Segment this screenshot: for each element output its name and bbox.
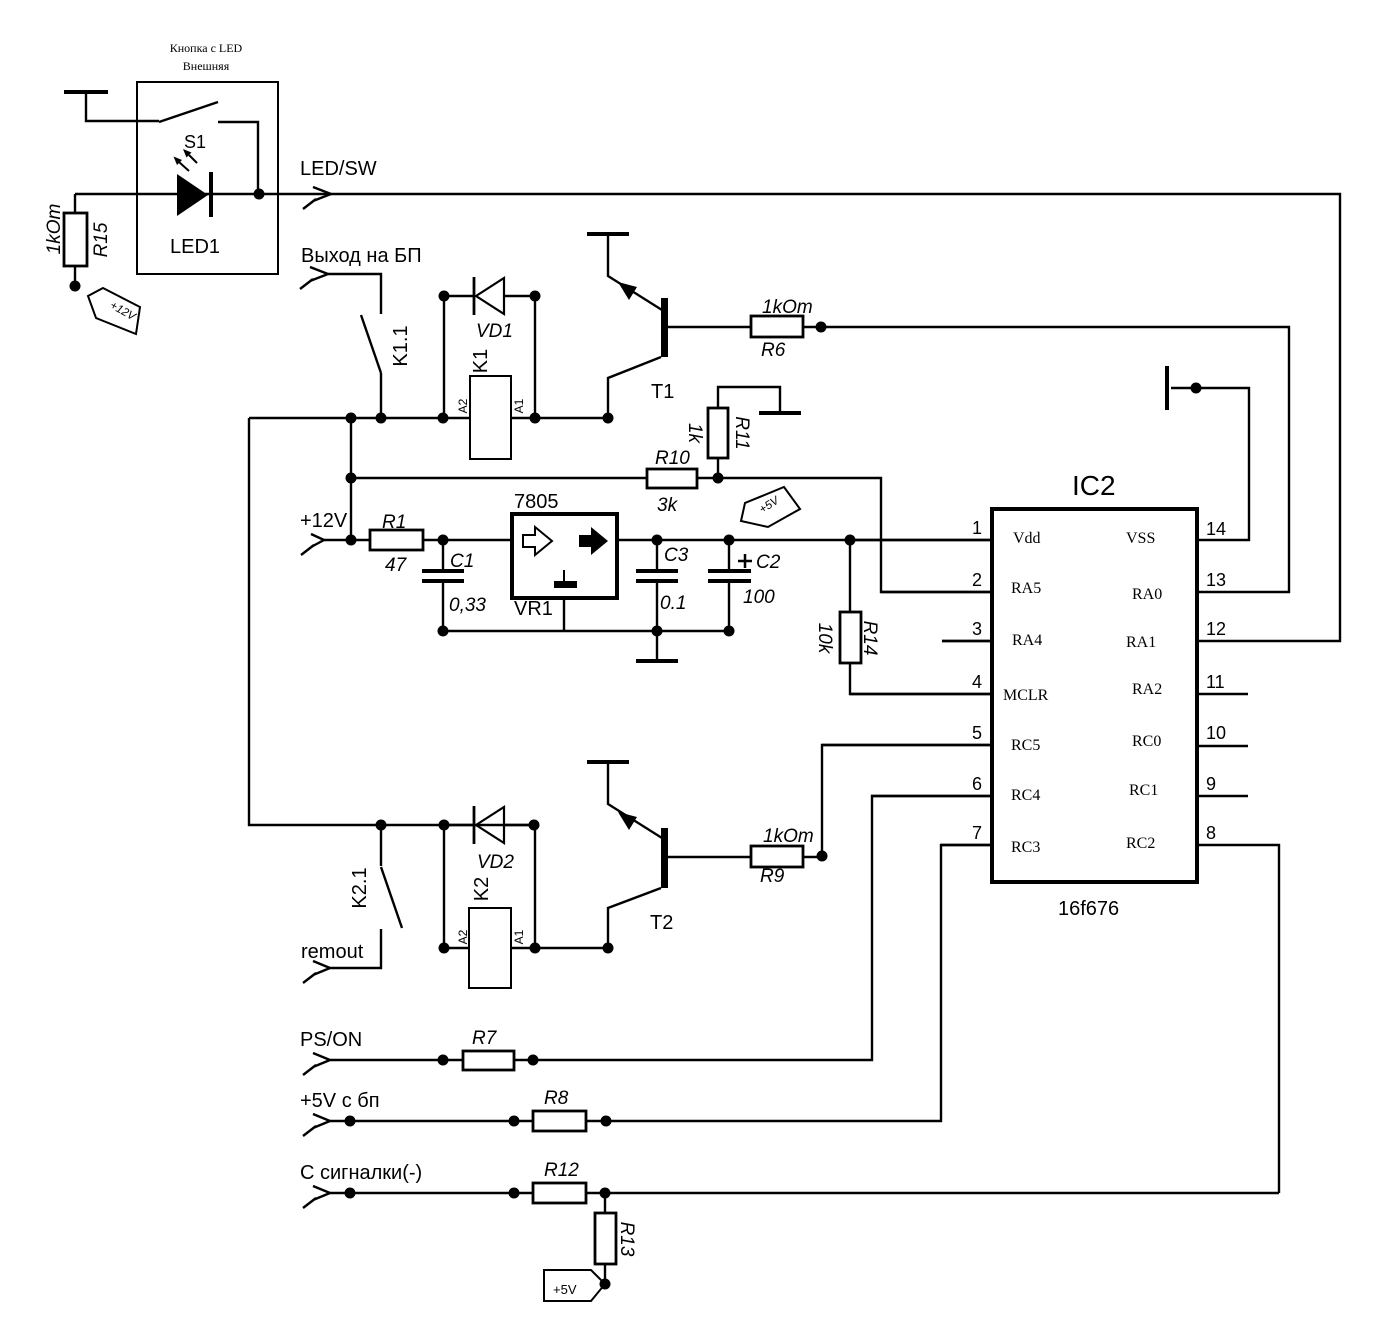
svg-text:Vdd: Vdd — [1013, 530, 1041, 547]
svg-text:+12V: +12V — [300, 510, 348, 532]
svg-text:RC3: RC3 — [1011, 839, 1040, 856]
svg-text:VD2: VD2 — [477, 852, 514, 873]
svg-text:K2.1: K2.1 — [349, 867, 371, 908]
svg-text:MCLR: MCLR — [1003, 687, 1049, 704]
svg-text:+5V с бп: +5V с бп — [300, 1090, 380, 1112]
svg-text:RC0: RC0 — [1132, 733, 1161, 750]
svg-text:3k: 3k — [657, 495, 679, 516]
svg-text:R9: R9 — [760, 866, 785, 887]
svg-text:Выход на БП: Выход на БП — [301, 245, 422, 267]
svg-text:VD1: VD1 — [476, 321, 513, 342]
svg-text:5: 5 — [972, 723, 982, 743]
svg-text:9: 9 — [1206, 774, 1216, 794]
svg-text:K1.1: K1.1 — [390, 325, 412, 366]
svg-text:RC5: RC5 — [1011, 737, 1040, 754]
svg-text:1: 1 — [972, 518, 982, 538]
svg-text:S1: S1 — [184, 132, 206, 152]
svg-text:100: 100 — [743, 587, 775, 608]
svg-text:RA2: RA2 — [1132, 681, 1162, 698]
svg-text:A1: A1 — [512, 398, 526, 413]
svg-text:С сигналки(-): С сигналки(-) — [300, 1162, 422, 1184]
svg-text:Кнопка с LED: Кнопка с LED — [170, 41, 243, 55]
svg-text:0,33: 0,33 — [449, 595, 486, 616]
svg-text:8: 8 — [1206, 823, 1216, 843]
svg-text:C1: C1 — [450, 551, 474, 572]
svg-text:1kOm: 1kOm — [44, 204, 65, 255]
svg-text:12: 12 — [1206, 619, 1226, 639]
svg-text:6: 6 — [972, 774, 982, 794]
svg-text:4: 4 — [972, 672, 982, 692]
svg-text:10: 10 — [1206, 723, 1226, 743]
svg-text:RA5: RA5 — [1011, 580, 1041, 597]
svg-text:A2: A2 — [456, 929, 470, 944]
svg-text:PS/ON: PS/ON — [300, 1029, 362, 1051]
svg-text:A1: A1 — [512, 929, 526, 944]
svg-text:K2: K2 — [471, 877, 493, 901]
svg-text:R15: R15 — [91, 222, 112, 257]
svg-text:2: 2 — [972, 570, 982, 590]
svg-text:R12: R12 — [544, 1160, 579, 1181]
svg-text:R6: R6 — [761, 340, 786, 361]
svg-text:C2: C2 — [756, 552, 781, 573]
svg-text:11: 11 — [1206, 672, 1225, 692]
svg-text:T2: T2 — [650, 912, 673, 934]
svg-text:RA1: RA1 — [1126, 634, 1156, 651]
svg-text:T1: T1 — [651, 381, 674, 403]
svg-text:1kOm: 1kOm — [763, 826, 814, 847]
svg-text:IC2: IC2 — [1072, 470, 1116, 501]
svg-text:13: 13 — [1206, 570, 1226, 590]
svg-text:A2: A2 — [456, 398, 470, 413]
svg-text:0.1: 0.1 — [660, 593, 686, 614]
svg-text:remout: remout — [301, 941, 364, 963]
svg-text:R13: R13 — [616, 1222, 637, 1257]
svg-text:RA0: RA0 — [1132, 586, 1162, 603]
svg-text:R11: R11 — [731, 416, 752, 449]
svg-text:14: 14 — [1206, 519, 1226, 539]
svg-text:47: 47 — [385, 555, 408, 576]
svg-text:RC1: RC1 — [1129, 782, 1158, 799]
svg-text:R7: R7 — [472, 1028, 498, 1049]
svg-text:C3: C3 — [664, 545, 689, 566]
svg-text:16f676: 16f676 — [1058, 898, 1119, 920]
svg-text:RC2: RC2 — [1126, 835, 1155, 852]
svg-text:VSS: VSS — [1126, 530, 1155, 547]
svg-text:1kOm: 1kOm — [762, 297, 813, 318]
svg-text:1k: 1k — [684, 423, 705, 445]
svg-text:RC4: RC4 — [1011, 787, 1040, 804]
svg-text:7: 7 — [972, 823, 982, 843]
svg-text:VR1: VR1 — [514, 598, 553, 620]
svg-text:10k: 10k — [814, 623, 835, 655]
svg-text:3: 3 — [972, 619, 982, 639]
svg-text:7805: 7805 — [514, 491, 559, 513]
svg-text:RA4: RA4 — [1012, 632, 1042, 649]
svg-text:R14: R14 — [859, 621, 880, 656]
svg-text:R10: R10 — [655, 448, 690, 469]
svg-text:K1: K1 — [470, 349, 492, 373]
svg-text:R8: R8 — [544, 1088, 569, 1109]
svg-text:+5V: +5V — [553, 1282, 577, 1297]
svg-text:LED/SW: LED/SW — [300, 158, 377, 180]
svg-text:Внешняя: Внешняя — [183, 59, 230, 73]
svg-text:R1: R1 — [382, 512, 406, 533]
svg-text:LED1: LED1 — [170, 236, 220, 258]
